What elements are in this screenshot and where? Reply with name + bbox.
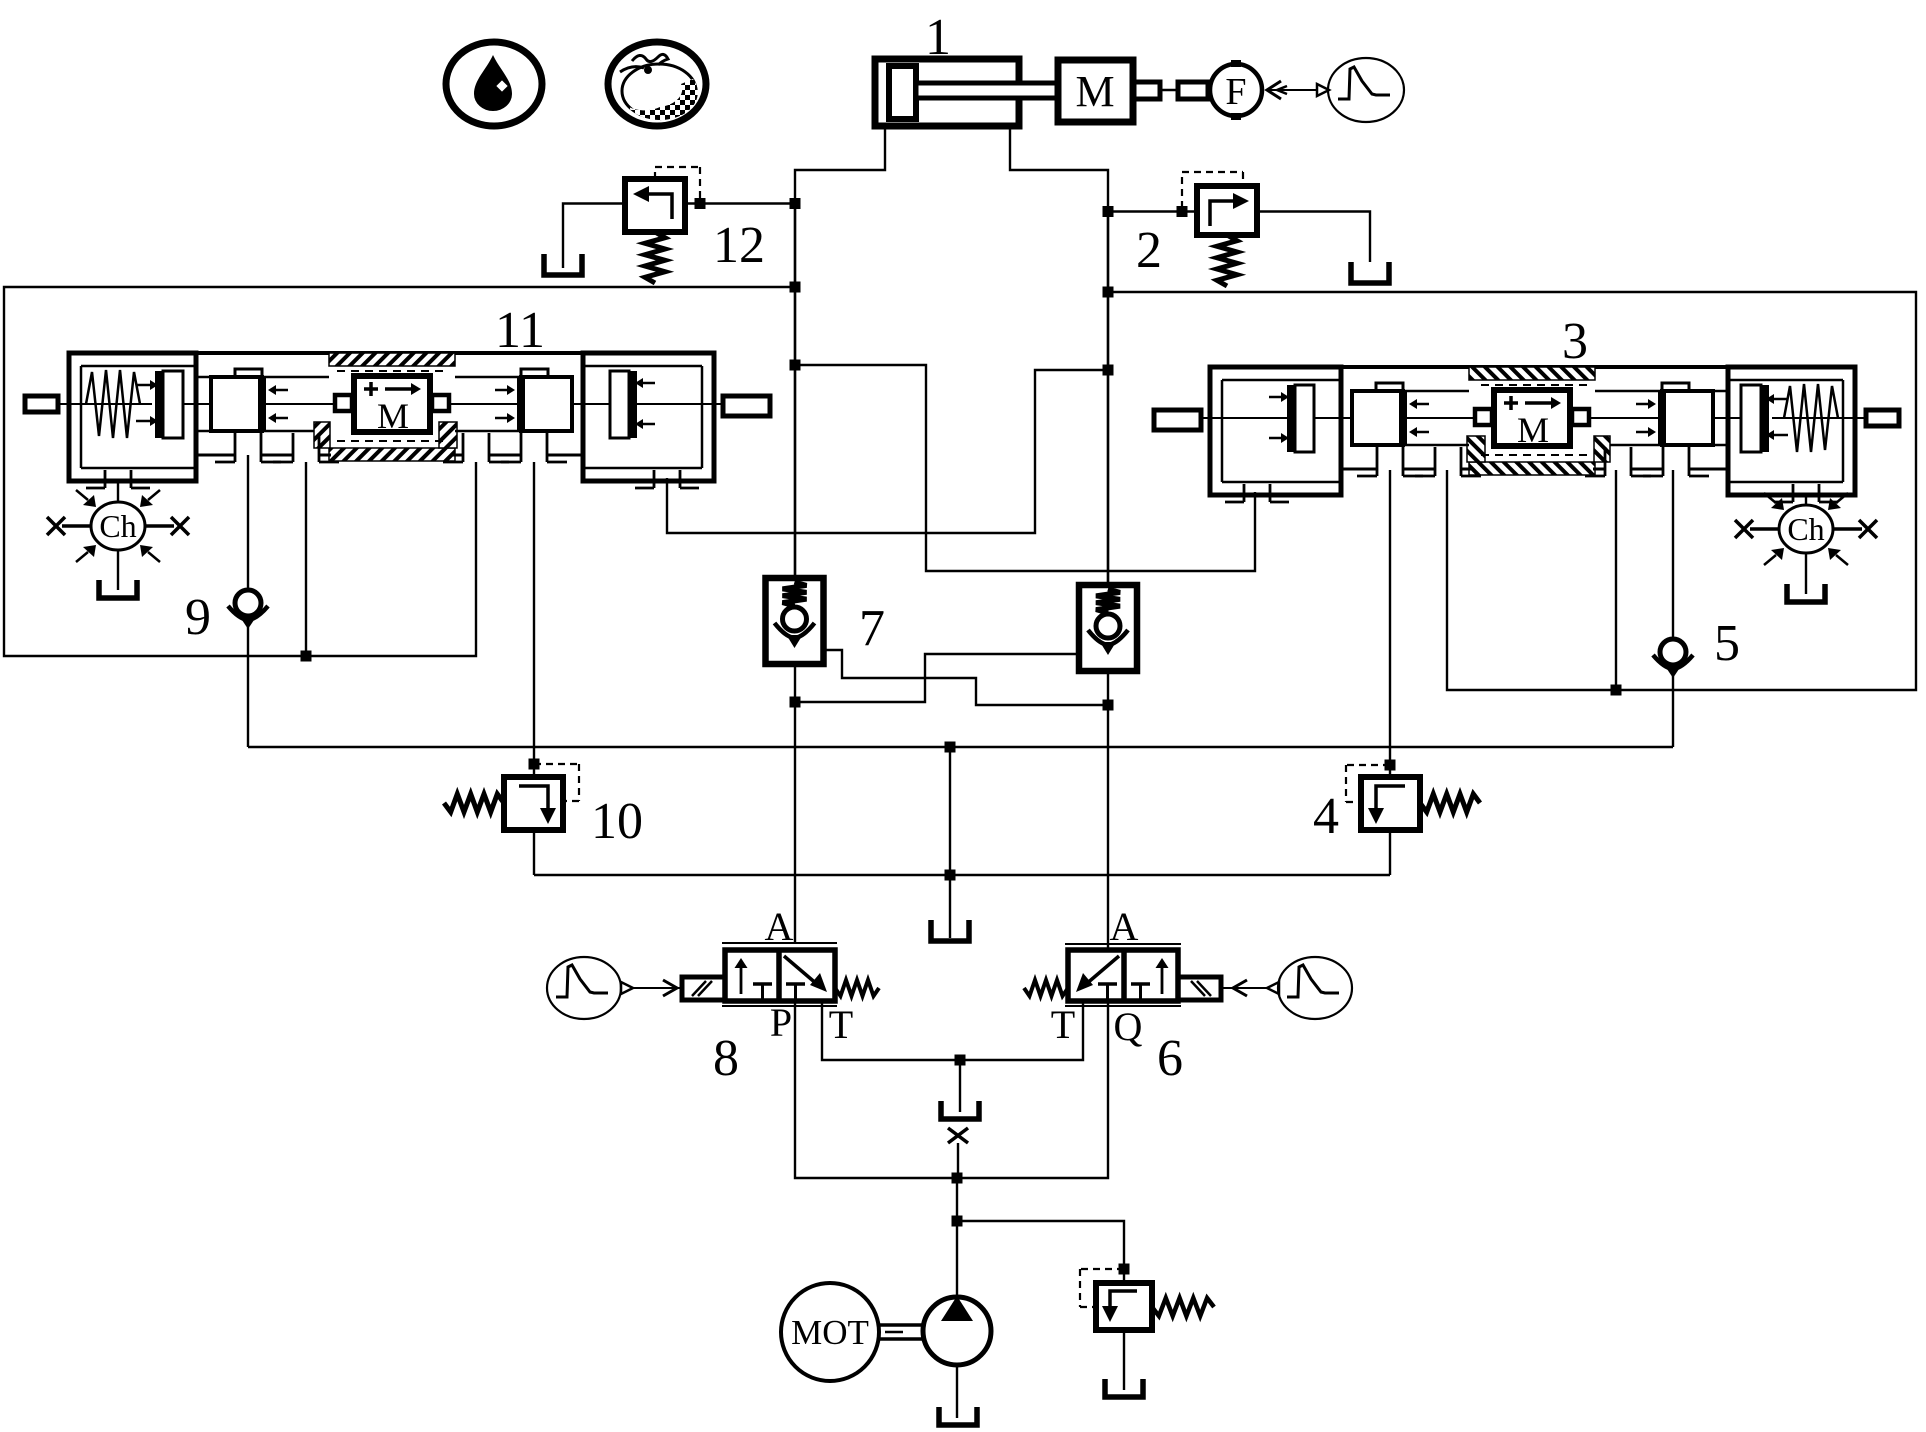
assembly 11 M letter — [377, 396, 409, 436]
junction dot — [1103, 206, 1114, 217]
wire line A to assembly 3 pilot — [795, 365, 1255, 571]
junction dot — [1103, 287, 1114, 298]
relief valve 2 pilot line — [1182, 172, 1243, 208]
svg-text:M: M — [1075, 67, 1114, 116]
coupling link — [1160, 89, 1178, 92]
wire assembly 11 outer loop — [4, 287, 795, 656]
svg-text:4: 4 — [1313, 788, 1339, 845]
label 12 — [713, 217, 765, 274]
svg-text:7: 7 — [859, 600, 885, 657]
valve 6 left position blocked port — [1098, 984, 1117, 1000]
relief valve 2 outlet wire — [1257, 212, 1370, 263]
wire pump outlet branch — [957, 1221, 1124, 1283]
wire to chamber 11 — [117, 481, 119, 503]
relief valve 2 inlet wire — [1108, 210, 1197, 212]
simulation parameters icon — [608, 42, 706, 126]
label 2 — [1136, 222, 1162, 279]
chamber symbol left — [47, 490, 189, 562]
assembly 11 mass arrow — [364, 382, 421, 396]
line B through check 7R — [1107, 671, 1109, 952]
relief valve 12 inlet wire — [685, 202, 795, 204]
svg-text:A: A — [1110, 904, 1139, 949]
junction dot — [1119, 1264, 1130, 1275]
cylinder 1 piston — [889, 66, 916, 119]
label 8 — [713, 1030, 739, 1087]
bottom relief valve pilot line — [1080, 1269, 1124, 1307]
bottom relief tank — [1105, 1379, 1143, 1397]
svg-text:MOT: MOT — [791, 1313, 869, 1352]
svg-text:T: T — [829, 1002, 853, 1047]
force sensor F — [1208, 60, 1262, 120]
wire chamber 11 to tank — [117, 550, 119, 590]
valve 6 overline — [1065, 943, 1181, 945]
junction dot — [955, 1055, 966, 1066]
cylinder 1 rod — [916, 83, 1058, 98]
chamber 11 tank — [99, 580, 137, 598]
junction dot — [952, 1216, 963, 1227]
label 10 — [591, 793, 643, 850]
valve 8 right position blocked port — [786, 984, 805, 1000]
wire bottom relief to tank — [1123, 1330, 1125, 1390]
valve 6 signal source — [1267, 957, 1352, 1019]
tank of valve 12 — [544, 254, 582, 275]
relief valve 12 arrow — [633, 186, 672, 219]
valve 8 proportional solenoid — [682, 977, 725, 1000]
valve 8 underline — [722, 1005, 837, 1007]
pump — [923, 1296, 991, 1365]
relief valve 2 body — [1197, 186, 1257, 235]
junction dot — [945, 742, 956, 753]
reducing valve 10 pilot line — [534, 764, 579, 801]
valve 6 spring — [1024, 980, 1068, 996]
label A — [1110, 904, 1139, 949]
valve 8 right position path — [784, 0, 827, 992]
junction dot — [1611, 685, 1622, 696]
check valve 7 right — [1079, 585, 1137, 671]
label Q — [1114, 1004, 1143, 1049]
assembly 3 M letter — [1517, 410, 1549, 450]
junction dot — [790, 360, 801, 371]
label 5 — [1714, 615, 1740, 672]
line A through check 7L — [794, 664, 796, 943]
hydraulic cylinder 1 body — [875, 59, 1019, 126]
svg-text:T: T — [1051, 1002, 1075, 1047]
junction dot — [1177, 206, 1188, 217]
junction dot — [695, 198, 706, 209]
reducing valve 4 pilot line — [1346, 765, 1390, 802]
wire to return tank — [959, 1060, 961, 1112]
svg-text:Ch: Ch — [99, 508, 136, 544]
drain line — [248, 746, 1673, 748]
check valve 5 — [1653, 639, 1693, 678]
svg-text:Q: Q — [1114, 1004, 1143, 1049]
wire check 7L side to check 7R bottom — [824, 650, 1109, 705]
wire assembly port to valve 10 — [533, 462, 535, 777]
proportional valve assembly 11 — [25, 353, 770, 488]
svg-text:3: 3 — [1562, 313, 1588, 370]
valve 8 overline — [722, 942, 837, 944]
wire cylinder cap-end to line A — [795, 126, 885, 578]
relief valve 12 pilot line — [655, 167, 700, 200]
chamber 3 tank — [1787, 584, 1825, 602]
label T — [829, 1002, 853, 1047]
label T — [1051, 1002, 1075, 1047]
junction dot — [1103, 365, 1114, 376]
svg-text:11: 11 — [495, 302, 545, 359]
force signal source — [1317, 58, 1404, 122]
svg-text:12: 12 — [713, 217, 765, 274]
valve 8 left position blocked port — [753, 984, 772, 1000]
svg-text:P: P — [770, 1000, 792, 1045]
svg-text:M: M — [377, 396, 409, 436]
junction dot — [1385, 760, 1396, 771]
svg-text:M: M — [1517, 410, 1549, 450]
svg-text:A: A — [765, 904, 794, 949]
label 4 — [1313, 788, 1339, 845]
junction dot — [1103, 700, 1114, 711]
relief valve 12 body — [625, 179, 685, 232]
valve 8 signal wire — [633, 980, 682, 996]
valve 6 left position path — [1076, 956, 1119, 992]
wire assembly port to check 9 — [247, 455, 249, 590]
valve 8 spring — [835, 980, 879, 996]
reducing valve 10 arrow — [519, 786, 556, 824]
svg-text:Ch: Ch — [1787, 511, 1824, 547]
relief valve 2 spring — [1217, 235, 1237, 286]
mass block M — [1058, 60, 1133, 122]
wire assembly port to check 5 — [1672, 470, 1674, 639]
junction dot — [952, 1173, 963, 1184]
junction dot — [790, 282, 801, 293]
wire check 7R side to check 7L bottom — [795, 654, 1079, 702]
reducing valve 4 body — [1361, 777, 1420, 830]
svg-text:5: 5 — [1714, 615, 1740, 672]
bottom relief valve spring — [1152, 1298, 1214, 1316]
valve 8 body — [725, 950, 835, 1001]
wire orifice to pump line — [957, 1143, 959, 1178]
assembly 3 mass arrow — [1504, 396, 1561, 410]
proportional valve assembly 3 — [1154, 367, 1899, 502]
wire check 5 to drain line — [1672, 676, 1674, 747]
mass-force coupling stub — [1133, 82, 1160, 99]
valve 6 body — [1068, 950, 1178, 1001]
valve 6 proportional solenoid — [1178, 977, 1221, 1000]
label P — [770, 1000, 792, 1045]
label 11 — [495, 302, 545, 359]
wire supply to pump — [956, 1178, 958, 1297]
valve 8 signal source — [547, 957, 633, 1019]
wire pump suction — [956, 1365, 958, 1418]
svg-text:8: 8 — [713, 1030, 739, 1087]
reducing valve 10 body — [504, 777, 563, 830]
wire to chamber 3 — [1805, 495, 1807, 506]
reducing valve 10 spring — [444, 794, 504, 812]
reducing valve 4 spring — [1420, 794, 1480, 812]
label 7 — [859, 600, 885, 657]
check valve 9 — [228, 590, 268, 629]
pump suction tank — [939, 1407, 977, 1425]
valve 6 signal wire — [1221, 980, 1267, 996]
bottom relief valve arrow — [1102, 1291, 1137, 1322]
supply line — [795, 1001, 1108, 1178]
valve 8 left position arrow — [735, 958, 748, 994]
wire valve 4 to line — [1389, 830, 1391, 875]
junction dot — [790, 198, 801, 209]
junction dot — [529, 759, 540, 770]
wire cylinder rod-end to line B — [1010, 126, 1108, 585]
tank of valve 2 — [1351, 262, 1389, 283]
wire check 9 to drain line — [247, 627, 249, 747]
label 6 — [1157, 1030, 1183, 1087]
junction dot — [790, 697, 801, 708]
orifice symbol — [948, 1128, 968, 1143]
mass M letter — [1075, 67, 1114, 116]
force signal arrow — [1267, 81, 1317, 99]
label 3 — [1562, 313, 1588, 370]
relief valve 12 spring — [645, 232, 665, 283]
wire drain to tank branch — [949, 747, 951, 875]
compensator line — [534, 874, 1390, 876]
label A — [765, 904, 794, 949]
label 9 — [185, 589, 211, 646]
svg-text:6: 6 — [1157, 1030, 1183, 1087]
wire port branch — [1615, 470, 1617, 690]
wire assembly port to valve 4 — [1389, 470, 1391, 777]
bottom relief valve body — [1096, 1283, 1152, 1330]
svg-text:F: F — [1225, 71, 1246, 113]
line A upper segment — [794, 204, 796, 579]
wire valve 8 T port — [822, 1001, 1083, 1060]
oil properties icon — [446, 42, 542, 126]
line B upper segment — [1107, 212, 1109, 586]
svg-text:1: 1 — [925, 9, 951, 66]
junction dot — [301, 651, 312, 662]
motor MOT — [781, 1283, 879, 1381]
valve 6 right position blocked port — [1131, 984, 1150, 1000]
reducing valve 4 arrow — [1368, 786, 1405, 824]
svg-text:2: 2 — [1136, 222, 1162, 279]
force coupling stub — [1178, 82, 1208, 99]
pump shaft — [878, 1325, 923, 1339]
check valve 7 left — [766, 578, 824, 664]
wire assembly 3 outer loop — [1108, 292, 1916, 690]
valve 6 underline — [1065, 1005, 1181, 1007]
return tank — [941, 1101, 979, 1119]
wire to middle tank — [949, 875, 951, 938]
label 1 — [925, 9, 951, 66]
middle tank — [931, 920, 969, 941]
junction dot — [945, 870, 956, 881]
relief valve 12 outlet wire — [563, 204, 625, 269]
svg-text:10: 10 — [591, 793, 643, 850]
wire port branch — [305, 462, 307, 656]
wire line B to assembly 11 pilot — [667, 370, 1108, 533]
valve 6 right position arrow — [1156, 958, 1169, 994]
wire chamber 3 to tank — [1805, 553, 1807, 594]
wire valve 10 to line — [533, 830, 535, 875]
chamber symbol right — [1735, 493, 1877, 565]
svg-text:9: 9 — [185, 589, 211, 646]
relief valve 2 arrow — [1210, 193, 1249, 226]
